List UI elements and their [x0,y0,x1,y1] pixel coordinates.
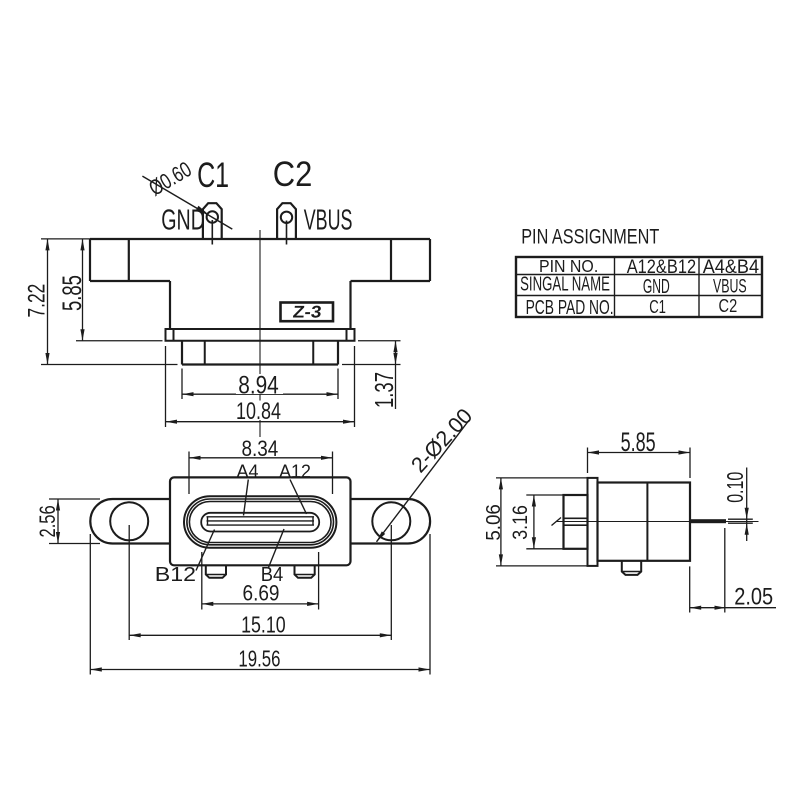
front view: mounting plate [166,329,355,341]
dim 6.69 [201,552,203,610]
receptacle shell ring 1 [184,496,336,548]
label A4 with leader [244,480,249,516]
label B12 with leader [196,530,215,571]
svg-text:SINGAL NAME: SINGAL NAME [520,273,610,295]
side view: axis centerline with end tick [556,521,759,523]
svg-text:2.05: 2.05 [734,583,773,610]
dim 1.37 [358,340,401,342]
receptacle shell ring 3 [189,502,331,543]
receptacle shell ring 2 [187,499,334,545]
svg-text:Z-3: Z-3 [292,302,323,321]
front view: flange fold lines [128,239,130,281]
front view: lower body [181,341,183,365]
dim 5.85 (side) [587,448,589,474]
pin assignment table grid [516,257,762,317]
Z-3 logo box [281,303,334,322]
tongue contact lines [207,516,315,518]
svg-text:GND: GND [161,205,205,237]
leader dia 0.60 [142,176,232,229]
label B4 with leader [269,529,285,568]
svg-text:PCB PAD NO.: PCB PAD NO. [526,295,614,318]
dim 8.34 [188,452,190,495]
svg-text:VBUS: VBUS [304,204,353,236]
svg-text:A12: A12 [279,460,311,481]
svg-text:15.10: 15.10 [241,613,286,639]
top view: right ear [351,499,431,544]
svg-text:A4: A4 [236,460,258,481]
dim text 10.84 [233,401,284,421]
top view: central body [170,477,351,565]
svg-text:C1: C1 [197,156,229,195]
right mounting hole [372,502,410,540]
svg-text:5.85: 5.85 [621,426,656,457]
dim 5.85 (front) [82,239,84,341]
svg-text:10.84: 10.84 [236,399,281,425]
svg-text:C1: C1 [649,297,666,318]
front view: top flange bar [90,238,430,240]
svg-text:5.06: 5.06 [482,504,505,541]
dim 10.84 extensions [165,346,167,427]
side view: shell front [564,495,588,549]
dim text 8.94 [236,374,283,394]
svg-text:2.56: 2.56 [36,505,61,537]
front view: central body sides [169,281,171,329]
leader 2-dia 2.00 [377,420,470,542]
svg-text:8.94: 8.94 [238,371,279,399]
svg-text:1.37: 1.37 [370,372,399,408]
side view: through pin [690,519,726,523]
dim 3.16 [526,494,563,496]
svg-text:GND: GND [643,275,670,298]
svg-text:6.69: 6.69 [243,581,280,606]
dim 8.94 extensions [181,369,183,400]
right foot tab [295,565,315,578]
svg-text:0.10: 0.10 [723,472,749,503]
dim 7.22 [47,239,49,365]
left foot tab [206,565,226,578]
dim 0.10 [728,518,753,520]
side view: mounting plate edge [588,478,598,566]
svg-text:A4&B4: A4&B4 [703,255,759,277]
svg-text:8.34: 8.34 [241,437,278,462]
side view: bottom foot [622,561,641,575]
svg-text:3.16: 3.16 [509,505,533,540]
dim 2.56 [49,498,100,500]
dim 15.10 [128,525,130,640]
dim 2.05 [689,566,691,612]
svg-text:5.85: 5.85 [57,275,87,311]
svg-text:19.56: 19.56 [238,647,280,672]
dim 19.56 [89,534,91,675]
svg-text:A12&B12: A12&B12 [627,256,696,278]
svg-text:B12: B12 [155,562,196,585]
svg-text:7.22: 7.22 [24,284,50,318]
svg-text:C2: C2 [273,155,313,194]
pin C2 (VBUS solder tab) [277,203,296,239]
svg-text:PIN ASSIGNMENT: PIN ASSIGNMENT [521,226,659,250]
dim 7.22 / 5.85 shared top extension [41,238,90,240]
dim 5.06 [496,477,588,479]
top view: left ear [90,499,170,544]
side view: main body [598,483,691,561]
left mounting hole [110,502,148,540]
svg-text:VBUS: VBUS [713,276,747,297]
label A12 with leader [290,480,307,515]
pin C1 (GND solder tab) [203,203,222,239]
svg-text:C2: C2 [719,295,738,316]
tongue outline [201,513,319,532]
front view centerline [259,230,261,437]
side view: contact slot [564,517,588,519]
